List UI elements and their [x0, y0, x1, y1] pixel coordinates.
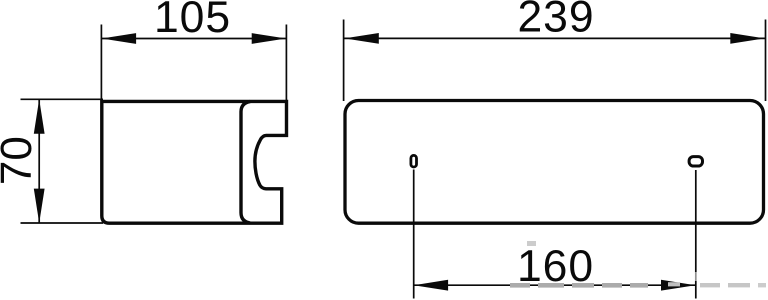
dimension 105: extension line right: [285, 25, 287, 102]
dimension 160: extension line right (from right hole): [695, 170, 697, 299]
bracket separation line in side view: [241, 102, 250, 223]
dimension 70: extension line bottom: [21, 222, 104, 224]
left mounting hole (vertical slot): [411, 155, 417, 167]
dimension 160: dimension line: [414, 284, 696, 286]
dimension 239: extension line right: [765, 20, 767, 102]
dimension 105: dimension line: [101, 38, 286, 40]
dimension 160: extension line left (from left hole): [413, 170, 415, 299]
dimension 70: top arrowhead: [34, 99, 45, 133]
side view outline (left view, 105 deep x 70 high): [102, 101, 287, 223]
svg-text:239: 239: [518, 0, 595, 42]
dimension 160: left arrowhead: [414, 280, 448, 291]
dimension 105: left arrowhead: [102, 33, 136, 44]
dimension 70: bottom arrowhead: [34, 189, 45, 223]
dimension 105: right arrowhead: [252, 33, 286, 44]
dimension 239: right arrowhead: [730, 33, 764, 44]
right mounting hole (horizontal slot): [689, 157, 702, 166]
dimension 105: extension line left: [100, 25, 102, 102]
svg-text:105: 105: [154, 0, 231, 42]
dimension 70: extension line top: [21, 98, 104, 100]
dimension 160: right arrowhead: [661, 280, 695, 291]
dimension 70: dimension line: [38, 99, 40, 223]
dimension 239: extension line left: [343, 20, 345, 102]
dimension 239: left arrowhead: [344, 33, 378, 44]
front view body (rounded rectangle, 239 wide): [345, 101, 764, 224]
watermark fragments (light gray) over lower dimension line: [510, 241, 766, 288]
dimension 239: dimension line: [344, 37, 766, 39]
svg-text:70: 70: [0, 136, 41, 185]
